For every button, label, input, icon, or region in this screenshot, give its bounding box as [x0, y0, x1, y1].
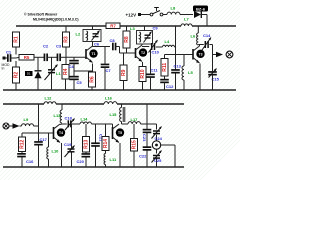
- wire T1 emitter to R6: [92, 64, 94, 73]
- svg-text:R8: R8: [124, 36, 130, 43]
- wire L14 to T5 base: [92, 124, 113, 127]
- transistor T2: [136, 45, 148, 62]
- capacitor C15 trimmer: [208, 72, 217, 75]
- inductor L6: [191, 33, 199, 45]
- svg-text:C6: C6: [94, 41, 100, 46]
- svg-text:R15: R15: [132, 140, 138, 149]
- svg-text:C1: C1: [6, 50, 12, 55]
- svg-text:BZ-6: BZ-6: [196, 6, 206, 11]
- capacitor C2: [43, 44, 49, 62]
- wire C12 to ground: [164, 82, 166, 90]
- resistor R1: [13, 32, 20, 47]
- watermark diagonal stripes: [0, 0, 320, 180]
- wire switch to L8: [163, 14, 167, 16]
- capacitor C11: [146, 68, 158, 78]
- svg-text:L1: L1: [56, 71, 61, 76]
- svg-text:C14: C14: [203, 33, 211, 38]
- svg-text:C17: C17: [40, 137, 48, 142]
- svg-text:L5: L5: [188, 70, 193, 75]
- svg-text:T5: T5: [118, 131, 122, 135]
- trimmer capacitor C19: [64, 142, 75, 157]
- wire L9 to node: [34, 125, 39, 127]
- capacitor C13: [171, 64, 181, 73]
- wire L8 to diode D2: [180, 14, 193, 16]
- resistor R15: [131, 139, 138, 152]
- inductor L11: [104, 154, 117, 165]
- wire +12V to switch: [141, 14, 150, 16]
- inductor L4: [163, 39, 175, 47]
- svg-text:R11: R11: [162, 63, 168, 72]
- svg-text:L11: L11: [110, 157, 117, 162]
- transistor T5: [113, 124, 125, 143]
- transistor T1: [86, 46, 98, 63]
- diode D2 with BZ-6 label: [193, 6, 208, 19]
- output arrow: [216, 52, 223, 57]
- wire T3 emitter to ground: [199, 64, 201, 91]
- top section ground rail: [3, 89, 236, 91]
- svg-text:T3: T3: [199, 52, 203, 56]
- svg-text:C19: C19: [64, 142, 72, 147]
- wire R12 column: [21, 133, 23, 167]
- phone jack column: [147, 124, 157, 167]
- svg-text:C12: C12: [166, 84, 174, 89]
- svg-text:C22: C22: [139, 154, 147, 159]
- svg-text:L10: L10: [52, 149, 60, 154]
- svg-text:L17: L17: [131, 117, 139, 122]
- resistor R8: [123, 31, 130, 48]
- capacitor C4: [69, 61, 79, 69]
- capacitor C17: [34, 137, 47, 145]
- C19 column: [71, 124, 73, 167]
- input arrow: [13, 123, 20, 128]
- T4 base wire: [22, 132, 54, 134]
- T5 emitter: [119, 143, 121, 167]
- capacitor C20: [77, 154, 91, 164]
- wire to T3 base: [176, 54, 194, 56]
- svg-text:L2: L2: [76, 32, 81, 37]
- MOD In input terminal: [2, 57, 10, 71]
- capacitor C7: [101, 64, 112, 73]
- resistor R7: [106, 23, 120, 29]
- wire R10 to ground: [142, 82, 144, 91]
- wire R4: [65, 57, 68, 90]
- svg-text:C8: C8: [110, 38, 116, 43]
- resistor R3: [63, 32, 70, 47]
- svg-text:L6: L6: [191, 34, 196, 39]
- svg-text:+12V: +12V: [126, 12, 137, 17]
- wire C3 to R3/R4 node: [60, 56, 86, 58]
- trimmer capacitor C10: [149, 40, 160, 55]
- inductor L12: [44, 96, 56, 105]
- R13 column: [85, 124, 87, 167]
- svg-text:C20: C20: [77, 159, 85, 164]
- wire R11 to C12: [164, 76, 166, 80]
- svg-text:L3: L3: [130, 26, 135, 31]
- wire T2 emitter to R10: [142, 62, 144, 67]
- variable inductor L1: [45, 65, 62, 81]
- wire L2 can to rail: [92, 26, 94, 30]
- resistor R14: [102, 137, 109, 151]
- IF transformer L15: [110, 107, 125, 122]
- resistor R4: [62, 65, 69, 80]
- RF input connector: [3, 123, 9, 129]
- capacitor C5: [69, 77, 82, 85]
- svg-text:R4: R4: [63, 68, 69, 75]
- trimmer capacitor C25: [152, 151, 163, 164]
- svg-text:T1: T1: [92, 52, 96, 56]
- svg-text:R6: R6: [90, 76, 96, 83]
- R14 column: [105, 124, 107, 167]
- wire C15 column: [212, 55, 214, 91]
- wire R11 stub: [165, 55, 176, 59]
- capacitor C16: [17, 154, 34, 164]
- resistor R13: [83, 137, 90, 153]
- C21 column: [95, 124, 97, 167]
- svg-text:R3: R3: [64, 36, 70, 43]
- svg-text:C11: C11: [151, 68, 159, 73]
- svg-text:L16: L16: [105, 96, 113, 101]
- T4 collector wire: [60, 123, 67, 126]
- svg-text:L9: L9: [24, 117, 29, 122]
- wire R2 to ground rail: [15, 83, 17, 90]
- antenna output connector: [226, 51, 233, 58]
- inductor L16: [104, 96, 117, 105]
- inductor L13: [54, 110, 63, 123]
- svg-text:L15: L15: [110, 112, 118, 117]
- trimmer capacitor C18: [65, 116, 75, 130]
- wire R3: [65, 26, 67, 57]
- capacitor C21: [91, 134, 103, 146]
- wire R9: [123, 53, 125, 90]
- wire C18 to L14: [71, 123, 80, 125]
- capacitor C3: [56, 44, 62, 62]
- switch S1: [150, 8, 163, 16]
- wire arrow to L9: [20, 125, 22, 127]
- capacitor C1: [6, 50, 12, 62]
- svg-text:T2: T2: [141, 51, 145, 55]
- resistor R12: [19, 137, 26, 152]
- inductor L8: [167, 6, 180, 15]
- resistor R10: [139, 67, 146, 82]
- svg-text:C25: C25: [154, 158, 162, 163]
- transformer connections: [121, 104, 123, 124]
- svg-text:R13: R13: [84, 139, 90, 148]
- svg-text:C13: C13: [174, 64, 182, 69]
- svg-text:C18: C18: [65, 116, 73, 121]
- wire T5 collector to L17: [122, 123, 148, 125]
- transistor T3: [193, 46, 205, 63]
- svg-text:R5: R5: [24, 55, 30, 60]
- resistor R5: [19, 55, 34, 61]
- svg-text:C10: C10: [152, 50, 160, 55]
- wire R6 to ground: [91, 87, 93, 90]
- signal wire R5 to C2: [34, 56, 44, 58]
- wire terminal to C1: [6, 57, 8, 59]
- svg-text:C9: C9: [153, 25, 159, 30]
- inductor L10: [47, 147, 59, 159]
- receiver ground rail: [3, 166, 184, 168]
- L10 column: [48, 133, 50, 167]
- svg-text:L13: L13: [54, 113, 62, 118]
- receiver supply rail: [3, 103, 184, 105]
- svg-text:C2: C2: [43, 44, 49, 49]
- svg-text:R9: R9: [121, 69, 127, 76]
- svg-text:C24: C24: [155, 136, 163, 141]
- tuned circuit L2 can: [76, 30, 102, 47]
- resistor R11: [161, 59, 168, 77]
- svg-text:L12: L12: [45, 96, 53, 101]
- jack return to ground: [161, 145, 175, 167]
- svg-text:R12: R12: [20, 139, 26, 148]
- svg-text:R14: R14: [103, 139, 109, 148]
- wire C2 to L1 node: [47, 56, 57, 58]
- resistor R6: [89, 72, 96, 87]
- wire L1 column: [51, 57, 53, 90]
- svg-text:L4: L4: [165, 39, 170, 44]
- svg-text:ML0401(HRQ)DD(1.0.M.3.C): ML0401(HRQ)DD(1.0.M.3.C): [33, 18, 79, 22]
- capacitor C12: [160, 80, 174, 89]
- inductor L7: [181, 17, 192, 27]
- svg-text:R1: R1: [14, 36, 20, 43]
- wire D2 to top rail: [201, 15, 207, 27]
- capacitor C23: [142, 130, 151, 142]
- wire C1 to node A: [11, 56, 20, 59]
- inductor L9: [22, 117, 34, 126]
- wire node to D1 and ground: [37, 57, 39, 90]
- trimmer capacitor C15 arrow: [209, 69, 220, 82]
- svg-text:C7: C7: [106, 68, 112, 73]
- svg-text:L14: L14: [81, 117, 89, 122]
- wire R8: [126, 26, 128, 53]
- wire C8 to T2 base: [116, 47, 136, 54]
- wire L3 can to rail: [144, 26, 146, 31]
- vertical feed x175.5: [175, 26, 177, 90]
- svg-text:L8: L8: [171, 6, 176, 11]
- resistor R2: [13, 67, 20, 83]
- wire C4 C5 column: [74, 57, 93, 90]
- svg-text:R10: R10: [140, 69, 146, 78]
- wire C11 column: [150, 50, 152, 90]
- C23/C22 column: [146, 104, 148, 167]
- T4 emitter to ground: [61, 143, 63, 167]
- inductor L14: [80, 117, 91, 125]
- svg-text:L7: L7: [184, 17, 189, 22]
- wire L5 column: [183, 55, 185, 91]
- wire C10 to L4: [156, 46, 176, 48]
- svg-text:T4: T4: [59, 131, 63, 135]
- wire T1 collector: [93, 42, 111, 47]
- +12V supply terminal: [126, 12, 142, 17]
- trimmer capacitor C24: [152, 127, 163, 141]
- wire input: [9, 125, 12, 127]
- R15 column: [133, 124, 135, 167]
- svg-text:© SilverSoft Weaver: © SilverSoft Weaver: [24, 13, 58, 17]
- inductor L5: [182, 66, 193, 80]
- transistor T4: [54, 124, 66, 143]
- svg-text:D1: D1: [27, 72, 31, 76]
- svg-text:C3: C3: [56, 44, 62, 49]
- svg-text:In: In: [2, 67, 5, 71]
- svg-text:C5: C5: [77, 80, 83, 85]
- vertical node column: [38, 104, 40, 167]
- capacitor C22: [139, 147, 151, 158]
- svg-text:C23: C23: [142, 134, 147, 142]
- wire C7 column: [104, 47, 106, 91]
- wire R1 to C1 node: [15, 47, 17, 67]
- inductor L17: [128, 117, 141, 124]
- top supply rail: [16, 25, 236, 27]
- capacitor C8: [110, 38, 116, 50]
- resistor R9: [120, 65, 127, 81]
- wire L13 top: [61, 104, 63, 110]
- svg-text:R7: R7: [110, 23, 116, 28]
- wire L6: [198, 26, 204, 46]
- tuned circuit L3 can: [130, 25, 158, 44]
- title text: [24, 13, 79, 22]
- earphone jack: [152, 141, 160, 149]
- trimmer capacitor C14: [202, 33, 211, 50]
- svg-text:C16: C16: [26, 159, 34, 164]
- wire C14 to output: [209, 45, 216, 55]
- svg-text:R2: R2: [14, 72, 20, 79]
- diode D1: [25, 71, 42, 78]
- wire T2 collector: [142, 44, 149, 47]
